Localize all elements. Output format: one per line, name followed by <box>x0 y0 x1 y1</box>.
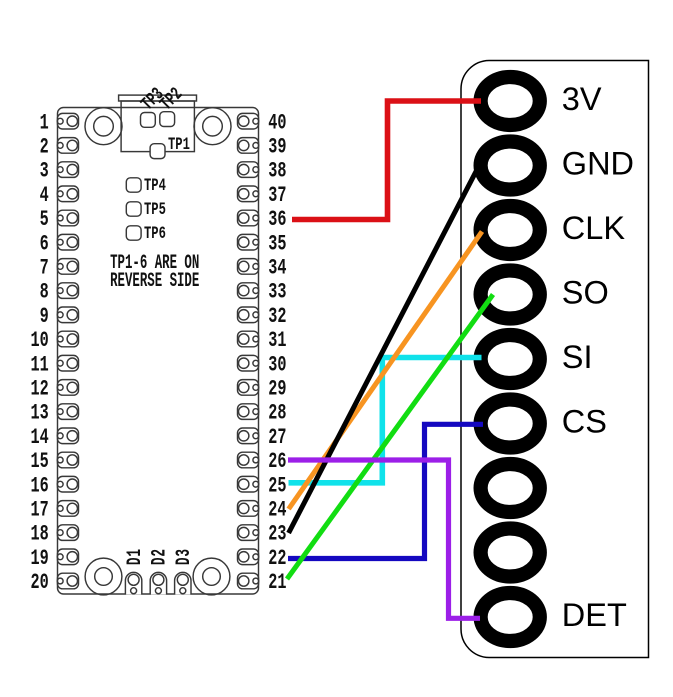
svg-text:28: 28 <box>268 400 286 426</box>
svg-text:1: 1 <box>40 110 49 136</box>
svg-text:6: 6 <box>40 231 49 257</box>
svg-text:17: 17 <box>30 497 48 523</box>
svg-text:CS: CS <box>562 403 607 439</box>
svg-text:34: 34 <box>268 255 286 281</box>
svg-text:36: 36 <box>268 206 286 232</box>
svg-text:30: 30 <box>268 352 286 378</box>
svg-text:25: 25 <box>268 473 286 499</box>
svg-text:21: 21 <box>268 569 286 595</box>
svg-text:SO: SO <box>562 274 609 310</box>
svg-text:38: 38 <box>268 158 286 184</box>
svg-text:23: 23 <box>268 521 286 547</box>
svg-text:8: 8 <box>40 279 49 305</box>
svg-text:20: 20 <box>30 569 48 595</box>
svg-text:5: 5 <box>40 206 49 232</box>
svg-text:40: 40 <box>268 110 286 136</box>
svg-text:13: 13 <box>30 400 48 426</box>
svg-text:19: 19 <box>30 545 48 571</box>
svg-text:9: 9 <box>40 303 49 329</box>
svg-text:D1: D1 <box>124 548 147 565</box>
svg-text:DET: DET <box>562 597 627 633</box>
svg-text:18: 18 <box>30 521 48 547</box>
svg-text:CLK: CLK <box>562 210 626 246</box>
svg-text:TP1: TP1 <box>168 134 190 155</box>
svg-text:14: 14 <box>30 424 48 450</box>
svg-text:16: 16 <box>30 473 48 499</box>
svg-text:29: 29 <box>268 376 286 402</box>
svg-text:TP6: TP6 <box>144 223 166 244</box>
svg-text:D2: D2 <box>149 548 172 565</box>
svg-text:33: 33 <box>268 279 286 305</box>
svg-text:27: 27 <box>268 424 286 450</box>
svg-text:24: 24 <box>268 497 286 523</box>
svg-text:26: 26 <box>268 448 286 474</box>
svg-text:TP4: TP4 <box>144 175 166 196</box>
svg-text:12: 12 <box>30 376 48 402</box>
svg-text:37: 37 <box>268 182 286 208</box>
svg-text:15: 15 <box>30 448 48 474</box>
svg-text:D3: D3 <box>174 548 197 565</box>
svg-text:3V: 3V <box>562 81 602 117</box>
svg-text:3: 3 <box>40 158 49 184</box>
svg-text:35: 35 <box>268 231 286 257</box>
svg-text:2: 2 <box>40 134 49 160</box>
svg-text:11: 11 <box>30 352 48 378</box>
svg-text:32: 32 <box>268 303 286 329</box>
svg-text:31: 31 <box>268 327 286 353</box>
svg-text:4: 4 <box>40 182 49 208</box>
svg-text:REVERSE SIDE: REVERSE SIDE <box>110 270 199 293</box>
svg-text:22: 22 <box>268 545 286 571</box>
svg-text:TP5: TP5 <box>144 199 166 220</box>
svg-text:10: 10 <box>30 327 48 353</box>
svg-text:GND: GND <box>562 145 634 181</box>
svg-text:7: 7 <box>40 255 49 281</box>
svg-text:39: 39 <box>268 134 286 160</box>
svg-text:SI: SI <box>562 339 593 375</box>
